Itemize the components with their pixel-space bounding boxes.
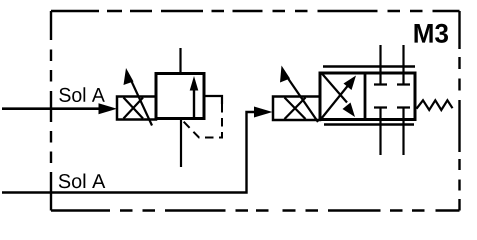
valve V2 crossed arrow (up-right) bbox=[321, 86, 348, 120]
valve V2 blocked port T (top right) bbox=[397, 45, 410, 85]
arrowhead into solenoid S1 bbox=[99, 103, 118, 114]
valve V1 bottom port line bbox=[180, 119, 182, 168]
valve V1 pilot line (dashed) bbox=[182, 104, 223, 138]
solenoid S1 proportional arrow bbox=[130, 77, 153, 126]
label Sol A (upper) bbox=[59, 87, 105, 102]
wire Sol A (upper solenoid supply) bbox=[2, 107, 102, 110]
valve V2 center divider bbox=[364, 73, 367, 120]
wire Sol A (lower solenoid supply) bbox=[2, 112, 254, 193]
solenoid S1 X bbox=[124, 98, 144, 119]
valve V2 blocked port T (bottom right) bbox=[397, 108, 410, 156]
valve V2 proportional line bottom bbox=[324, 123, 414, 126]
enclosure border left (phantom dashed) bbox=[50, 11, 52, 211]
valve V1 right port elbow bbox=[204, 96, 222, 104]
enclosure border bottom (phantom dashed) bbox=[51, 209, 460, 211]
enclosure border top (phantom dashed) bbox=[51, 10, 460, 12]
solenoid S2 box bbox=[273, 97, 320, 121]
valve V1 top port line bbox=[179, 48, 181, 74]
solenoid S2 proportional arrow bbox=[285, 74, 318, 122]
enclosure border right (phantom dashed) bbox=[458, 11, 460, 211]
valve V1 internal arrow (flow path up) bbox=[193, 88, 195, 118]
arrowhead into solenoid S2 bbox=[254, 107, 273, 118]
label Sol A (lower) bbox=[59, 174, 106, 189]
valve V2 body bbox=[320, 73, 415, 120]
valve V2 blocked port T (bottom left) bbox=[374, 108, 387, 156]
spring (return) bbox=[417, 100, 453, 110]
valve V1 body bbox=[156, 74, 204, 119]
solenoid S2 X bbox=[285, 98, 306, 120]
valve V2 crossed arrow (down-right) bbox=[321, 73, 347, 103]
solenoid S1 box bbox=[117, 97, 156, 120]
valve V2 proportional line top bbox=[323, 65, 415, 68]
label M3 bbox=[415, 24, 449, 43]
valve V2 blocked port T (top left) bbox=[374, 45, 387, 85]
